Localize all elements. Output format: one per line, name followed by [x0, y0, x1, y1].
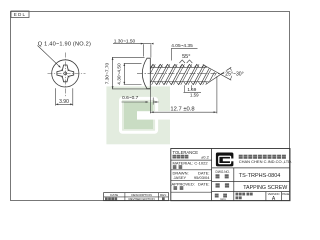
svg-text:EDL: EDL [14, 12, 27, 17]
svg-text:DWG.NO.: DWG.NO. [216, 170, 230, 174]
svg-text:25°~30°: 25°~30° [225, 72, 243, 78]
svg-text:TOLERANCE: TOLERANCE [173, 150, 199, 155]
svg-text:CHAN CHEN C.IND.CO.,LTD.: CHAN CHEN C.IND.CO.,LTD. [239, 159, 292, 164]
svg-text:DATE: DATE [110, 193, 118, 197]
svg-text:55°: 55° [182, 54, 190, 60]
svg-text:±0.2: ±0.2 [201, 155, 210, 160]
svg-text:4.30~4.50: 4.30~4.50 [117, 63, 123, 85]
svg-text:3.90: 3.90 [59, 99, 69, 105]
svg-text:JASEY: JASEY [174, 175, 187, 180]
svg-text:1.59: 1.59 [190, 93, 199, 98]
svg-text:TAPPING SCREW: TAPPING SCREW [243, 185, 287, 191]
svg-text:REVISED EDITION: REVISED EDITION [129, 197, 155, 201]
svg-text:12.7 ±0.8: 12.7 ±0.8 [170, 107, 194, 113]
svg-text:APPROVED:: APPROVED: [172, 181, 195, 186]
svg-text:Q 1.40~1.90 (NO.2): Q 1.40~1.90 (NO.2) [38, 41, 91, 47]
svg-text:DATE:: DATE: [198, 181, 209, 186]
svg-text:MATERIAL: C-1022: MATERIAL: C-1022 [173, 161, 209, 166]
svg-text:REV.: REV. [160, 193, 167, 197]
svg-text:7.30~7.70: 7.30~7.70 [104, 62, 110, 84]
svg-text:95/03/04: 95/03/04 [194, 175, 210, 180]
svg-text:1.69: 1.69 [187, 87, 196, 92]
svg-text:0.6~0.7: 0.6~0.7 [122, 95, 138, 101]
svg-text:TS-TRPHS-0804: TS-TRPHS-0804 [239, 173, 281, 179]
svg-text:m/m: m/m [220, 197, 226, 201]
svg-text:PAGE: PAGE [282, 192, 289, 196]
